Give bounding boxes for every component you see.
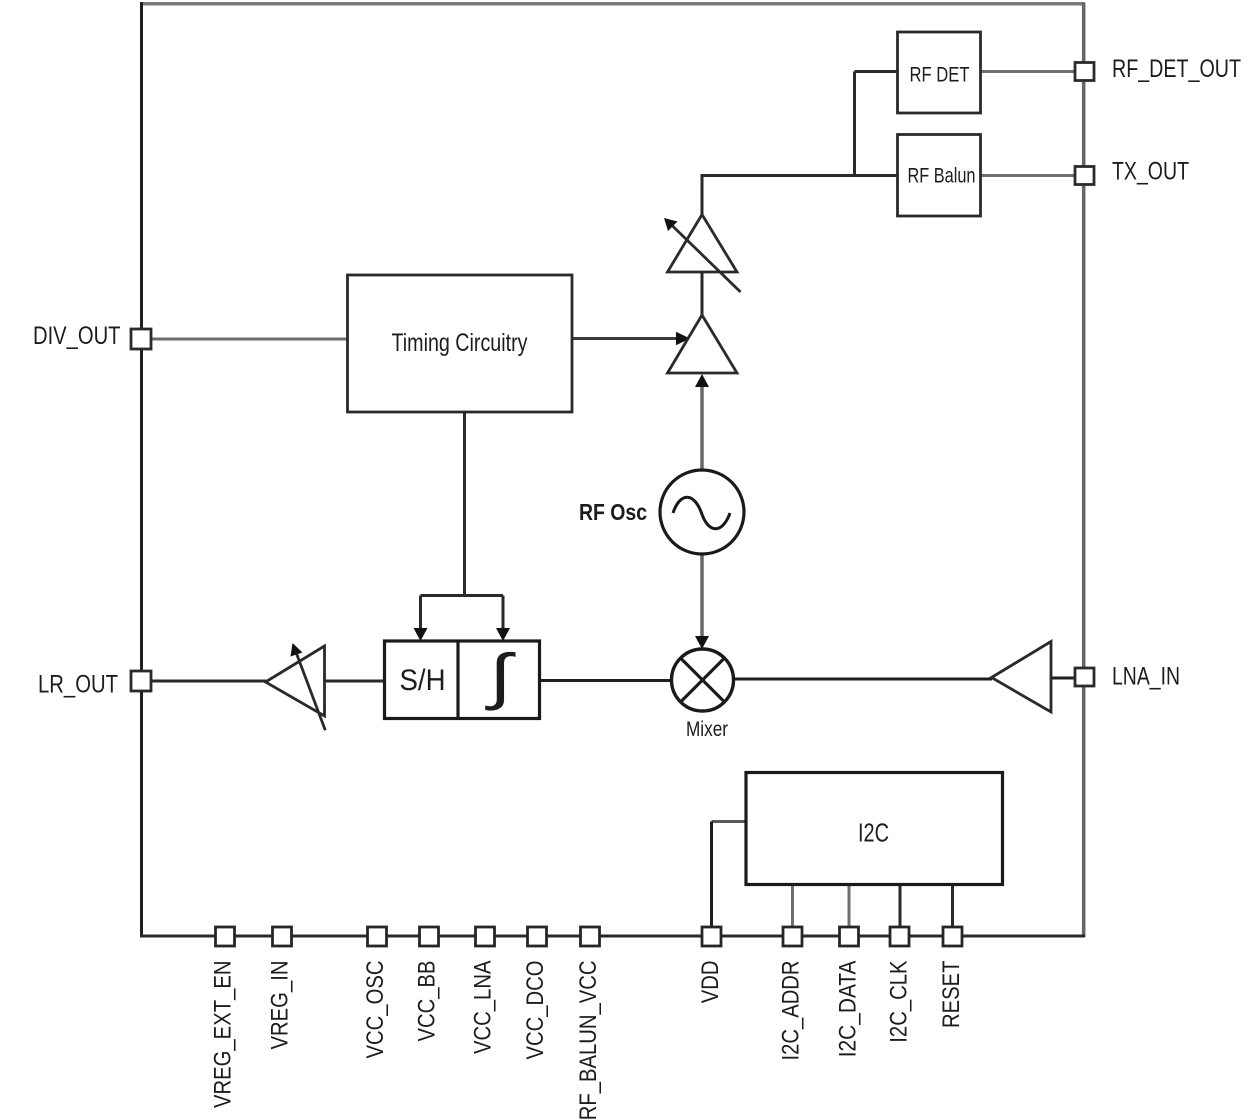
- svg-text:I2C: I2C: [858, 818, 889, 848]
- svg-text:LR_OUT: LR_OUT: [38, 671, 118, 699]
- svg-text:RF_DET_OUT: RF_DET_OUT: [1112, 55, 1241, 83]
- svg-text:RF Osc: RF Osc: [579, 499, 647, 525]
- svg-text:Timing Circuitry: Timing Circuitry: [392, 329, 528, 357]
- svg-text:LNA_IN: LNA_IN: [1112, 663, 1180, 691]
- svg-text:RF_BALUN_VCC: RF_BALUN_VCC: [575, 961, 602, 1120]
- svg-text:VREG_IN: VREG_IN: [266, 961, 293, 1050]
- svg-text:VCC_DCO: VCC_DCO: [522, 961, 549, 1060]
- svg-text:VDD: VDD: [697, 961, 724, 1004]
- svg-text:RF DET: RF DET: [910, 63, 970, 87]
- svg-text:S/H: S/H: [400, 664, 446, 697]
- svg-text:TX_OUT: TX_OUT: [1112, 158, 1189, 186]
- svg-text:Mixer: Mixer: [686, 718, 728, 741]
- svg-text:VCC_BB: VCC_BB: [413, 961, 440, 1042]
- svg-text:VCC_LNA: VCC_LNA: [469, 961, 496, 1055]
- svg-text:VREG_EXT_EN: VREG_EXT_EN: [209, 961, 236, 1109]
- svg-text:RF Balun: RF Balun: [908, 164, 976, 188]
- svg-text:RESET: RESET: [938, 960, 965, 1028]
- svg-text:∫: ∫: [484, 642, 516, 711]
- svg-text:I2C_CLK: I2C_CLK: [885, 960, 912, 1042]
- svg-text:I2C_DATA: I2C_DATA: [834, 961, 861, 1058]
- svg-text:DIV_OUT: DIV_OUT: [33, 322, 121, 350]
- svg-text:I2C_ADDR: I2C_ADDR: [777, 961, 804, 1061]
- svg-text:VCC_OSC: VCC_OSC: [362, 961, 389, 1059]
